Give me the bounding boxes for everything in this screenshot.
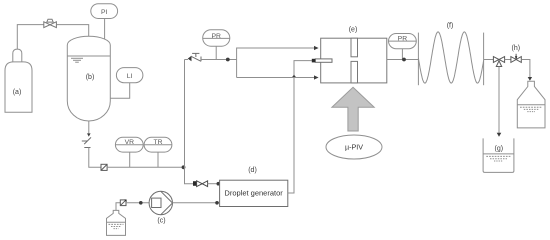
check valve CV1: [101, 164, 107, 170]
junction node: [402, 58, 406, 62]
svg-text:µ-PIV: µ-PIV: [345, 143, 363, 152]
pressure regulator PR2: [389, 34, 417, 60]
arrow into chamber bottom inlet: [314, 75, 319, 79]
controller TR: [144, 137, 172, 167]
wire valve V1 to tank: [56, 25, 88, 38]
check valve CV2: [120, 200, 126, 206]
wire V6 to collection bottle: [521, 60, 530, 78]
capillary tube: [315, 59, 332, 62]
wire CV1 to junction: [107, 166, 183, 168]
liquid level: [68, 55, 111, 57]
wire V5 to V6: [505, 59, 511, 61]
gas cylinder (a): [5, 49, 32, 112]
svg-text:(f): (f): [447, 23, 454, 30]
pump (c): [149, 191, 172, 214]
junction node: [226, 58, 230, 62]
level indicator LI: [116, 68, 142, 83]
svg-text:PI: PI: [101, 9, 108, 16]
chamber plate bottom: [351, 61, 358, 83]
droplet generator (d): [220, 180, 288, 206]
wire coil to valve V5: [484, 59, 494, 61]
wire V3 to droplet generator: [208, 183, 220, 185]
test chamber (e): [321, 38, 387, 83]
wire tank outlet: [88, 121, 90, 133]
port node: [217, 182, 221, 186]
wire pump to droplet generator: [173, 202, 220, 204]
chamber plate top: [351, 38, 358, 57]
wire valve V2 down and right: [89, 148, 101, 168]
wire bottle to CV2: [116, 203, 120, 211]
three-way valve V5: [493, 57, 504, 67]
wire V4 to branch: [201, 59, 237, 61]
valve V4 (pressure regulator hand valve): [188, 53, 201, 61]
junction node: [182, 165, 186, 169]
wire droplet generator outlet up: [288, 61, 312, 193]
controller VR: [115, 137, 143, 167]
junction crossing marker: [292, 75, 297, 78]
port node: [215, 201, 219, 205]
micro-PIV label ellipse: [326, 135, 382, 159]
wire branch verticals and chamber inlets: [237, 48, 315, 78]
needle valve V6: [511, 54, 521, 63]
svg-text:(b): (b): [86, 74, 95, 81]
wire vertical main branch: [185, 60, 194, 184]
wire junction to V4: [185, 59, 189, 61]
arrow into chamber top inlet: [314, 46, 319, 50]
arrow down at tank outlet: [87, 133, 91, 136]
svg-text:(a): (a): [13, 89, 22, 96]
collection bottle: [517, 81, 545, 128]
wire tank to LI: [110, 83, 129, 99]
junction node: [139, 201, 143, 205]
svg-text:TR: TR: [153, 139, 162, 146]
wire CV2 to pump: [126, 202, 149, 204]
feed bottle: [107, 210, 126, 235]
beaker (g): [483, 138, 514, 172]
svg-text:(g): (g): [495, 146, 504, 153]
pressure indicator PI: [91, 4, 118, 42]
valve V1 (gas shut-off): [44, 19, 57, 27]
svg-text:PR: PR: [211, 33, 221, 40]
valve V3 (droplet generator feed): [193, 181, 208, 187]
arrow into beaker: [497, 133, 502, 137]
svg-text:Droplet generator: Droplet generator: [224, 188, 283, 197]
wire chamber to coil: [387, 59, 419, 61]
wire cylinder to valve V1: [17, 25, 43, 49]
svg-text:(e): (e): [349, 27, 358, 34]
pressure regulator PR: [203, 30, 230, 60]
svg-text:(h): (h): [512, 45, 521, 52]
arrow into bottle: [528, 77, 532, 81]
tank (b): [67, 36, 110, 121]
coil (f): [418, 32, 483, 85]
svg-text:(d): (d): [248, 167, 257, 174]
valve V2 (hand valve below tank): [82, 137, 91, 147]
microscope arrow (micro-PIV objective): [332, 87, 374, 131]
svg-text:PR: PR: [398, 36, 408, 43]
svg-text:LI: LI: [127, 73, 133, 80]
wire V5 down to beaker: [498, 67, 500, 134]
svg-text:(c): (c): [157, 218, 165, 225]
svg-text:VR: VR: [125, 139, 135, 146]
